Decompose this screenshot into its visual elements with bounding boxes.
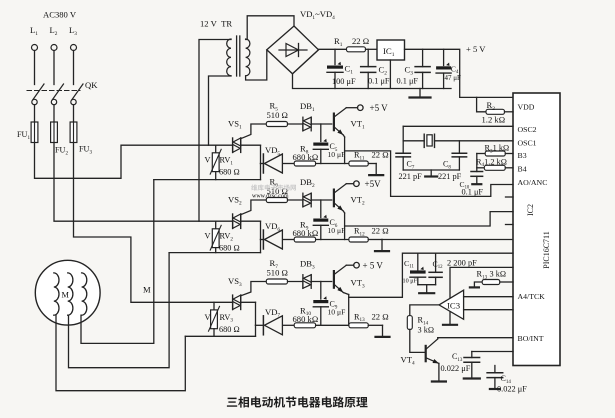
svg-text:510 Ω: 510 Ω [267,110,288,120]
svg-text:BO/INT: BO/INT [518,334,544,343]
pin label B3 [518,151,527,160]
resistor R1 22ohm [334,36,369,52]
switch QK pole 3 [71,84,83,105]
capacitor C5 10uF [313,139,345,164]
label FU2 [55,146,68,157]
terminal L1 [30,25,38,51]
svg-text:0.1 μF: 0.1 μF [397,77,419,86]
resistor R6 510 [266,177,288,203]
resistor R5 510 [266,101,288,127]
resistor R9 680k [293,220,319,243]
ground VT4 emitter [432,363,446,381]
svg-text:M: M [143,285,151,295]
wire R680 to node ch3 [316,324,349,326]
IC1 gnd pin wire [389,60,391,89]
wire motor lead 2 [69,253,170,368]
wire ch1 output to AO/ANC [345,151,513,197]
svg-text:www.dzsc.com: www.dzsc.com [252,194,289,200]
resistor R8 680k [293,144,319,167]
wire diode to R ch1 [283,163,294,165]
watermark line1 [251,184,296,190]
wire R3R4 junction [476,154,478,172]
triac VS3 [228,276,242,310]
svg-text:+ 5 V: + 5 V [363,261,384,271]
capacitor C13 0.022uF [441,352,480,374]
wire VT4 collector to BO/INT [438,337,513,340]
ground power rail [410,89,431,98]
wire motor lead 1 [56,315,185,391]
wire IC3 V+ to IC2 [450,267,513,297]
varistor RV3 [205,302,240,336]
wire emitter down ch2 [343,211,344,240]
wire OSC1 crystal line [403,140,513,142]
wire +5 to R2 [477,97,486,111]
capacitor C6 10uF [313,215,345,240]
wire diode to R ch2 [283,239,294,241]
label FU1 [17,130,30,141]
wire R22 to gnd ch2 [368,239,512,241]
wire diac junction down ch1 [320,124,322,142]
wire ch3 rect bottom [185,335,255,337]
svg-text:AC380 V: AC380 V [43,10,77,20]
wire osc left leg [402,126,404,153]
wire diac junction down ch2 [320,200,322,218]
wire phase L1 to channel 1 [35,143,233,179]
switch QK pole 1 [32,84,44,105]
resistor R12 22 [349,226,389,243]
svg-text:22 Ω: 22 Ω [372,226,389,236]
diac DB2 [300,177,315,207]
resistor R11 22 [349,150,389,167]
switch QK pole 2 [51,84,63,105]
transistor VT4 [401,339,439,366]
fuse FU2 [51,122,58,143]
label PIC16C711 vertical [542,231,551,269]
capacitor C8 221pF [438,153,467,181]
svg-text:680 Ω: 680 Ω [219,244,240,253]
svg-text:VDD: VDD [518,103,535,112]
wire ch2 rect right edge [260,221,262,252]
wire to diac ch2 [288,199,303,201]
pin label BO/INT [518,334,544,343]
node gnd rail [0,0,1,1]
resistor R7 510 [266,258,288,284]
svg-text:PIC16C711: PIC16C711 [542,231,551,269]
wire IC1 out +5V rail [405,49,512,97]
triac VS1 [228,119,242,153]
label IC2 vertical [526,204,535,216]
svg-text:10 μF: 10 μF [328,150,346,159]
capacitor C11 10uF [403,253,426,285]
op-amp IC3 [439,290,464,319]
wire osc right leg [458,141,460,154]
resistor R14 3k [407,316,434,335]
ground IC3 [443,312,457,325]
wire ch2 triac-right to rect [241,220,261,222]
svg-text:1.2 kΩ: 1.2 kΩ [482,115,506,125]
varistor RV1 [205,145,240,179]
pin label VDD [518,103,535,112]
svg-text:QK: QK [85,80,98,90]
wire bridge bottom to gnd rail [293,74,452,89]
wire gate ch3 [241,282,267,296]
svg-text:0.022 μF: 0.022 μF [497,385,527,394]
wire phase L3 to channel 3 [74,143,233,303]
wire R2 to VDD [505,111,514,113]
svg-text:IC3: IC3 [447,300,460,310]
wire bridge out rail [319,48,347,50]
wire switch to fuse FU1 [34,105,36,122]
wire OSC2 [403,125,513,127]
svg-text:12 V TR: 12 V TR [200,19,232,29]
diode VD6 [261,221,283,249]
wire R14 to VT4 base [410,329,425,352]
terminal +5V ch1 [358,103,389,113]
svg-text:0.1 μF: 0.1 μF [368,77,390,86]
svg-text:100 μF: 100 μF [332,77,356,86]
wire emitter down ch1 [343,135,344,164]
label VD1~VD4 [300,9,335,21]
svg-text:V: V [205,232,211,241]
wire L2 to switch [53,51,55,85]
wire ch3 output to filter [349,253,513,297]
svg-text:A4/TCK: A4/TCK [518,292,546,301]
wire R22 to gnd ch3 [368,324,382,326]
wire R22 to gnd ch1 [368,163,376,165]
svg-text:OSC2: OSC2 [518,125,537,134]
wire L3 to switch [73,51,75,85]
wire R680 to node ch1 [316,163,349,165]
wire C13 line to IC2 [472,351,513,353]
svg-text:10 μF: 10 μF [328,308,346,317]
pin stub y224 [506,224,514,226]
wire R1 to IC1 [366,48,378,50]
motor M circle [35,260,100,325]
pin stub y197 [506,196,514,198]
svg-text:10 μF: 10 μF [328,226,346,235]
transistor VT2 [334,184,365,211]
capacitor C1 100uF [327,49,356,88]
svg-text:22 Ω: 22 Ω [372,311,389,321]
svg-text:B3: B3 [518,151,527,160]
varistor RV2 [205,221,240,253]
svg-text:0.022 μF: 0.022 μF [441,364,471,373]
wire diac to base ch3 [311,281,332,283]
terminal L3 [69,25,77,51]
label AC380 V [43,10,77,20]
wire diac junction down ch3 [320,282,322,300]
resistor R2 1.2k [482,100,506,125]
diode VD5 [261,145,283,173]
pin label OSC2 [518,125,537,134]
svg-text:510 Ω: 510 Ω [267,268,288,278]
fuse FU3 [70,122,77,143]
ground C11 C12 [418,285,436,294]
svg-text:680 kΩ: 680 kΩ [293,152,319,162]
svg-text:3 kΩ: 3 kΩ [418,326,435,335]
capacitor C3 0.1uF [397,49,431,88]
label M outside [143,285,151,295]
resistor R10 680k [293,305,319,328]
svg-text:22 Ω: 22 Ω [352,36,369,46]
wire secondary bottom to bridge [246,50,267,80]
svg-text:221 pF: 221 pF [399,172,423,181]
wire to diac ch3 [288,281,303,283]
wire switch to fuse FU2 [53,105,55,122]
capacitor C10 0.1uF [460,172,484,197]
caption [227,397,368,408]
transistor VT3 [334,265,365,292]
label FU3 [79,145,92,156]
ground crystal [425,170,437,177]
ground ch1 [369,164,383,176]
wire to diac ch1 [288,123,303,125]
wire ch3 triac-right to rect [241,301,256,303]
pin label OSC1 [518,138,537,147]
wire diac to base ch2 [311,199,332,201]
wire ch2 output [345,212,513,226]
wire ch1 rect right edge [260,145,262,179]
wire diac to base ch1 [311,123,332,125]
capacitor C9 10uF [313,296,345,325]
transformer TR primary [227,39,231,76]
capacitor C7 221pF [396,153,422,181]
svg-text:3 kΩ: 3 kΩ [490,270,507,279]
wire switch to fuse FU3 [73,105,75,122]
svg-text:AO/ANC: AO/ANC [518,178,548,187]
svg-text:47 μF: 47 μF [445,74,462,82]
diac DB3 [300,259,315,289]
svg-text:680 Ω: 680 Ω [219,168,240,177]
wire ch3 rect right edge [255,302,257,336]
wire ch2 rect bottom [169,252,260,254]
transistor VT1 [334,108,365,135]
wire motor lead 3 [81,180,154,344]
svg-text:10 μF: 10 μF [403,278,418,285]
diac DB1 [300,101,315,131]
triac VS2 [228,195,242,229]
wire ch1 triac-right to rect [241,144,261,146]
svg-text:M: M [62,291,70,300]
ground C10 [472,176,481,184]
motor winding 2 [68,273,73,315]
wire IC3 bottom input [464,309,513,311]
wire emitter down ch3 [343,293,348,326]
wire ch1 rect bottom [154,179,261,181]
wire R680 to node ch2 [316,239,349,241]
svg-text:OSC1: OSC1 [518,138,537,147]
wire osc gnd rail [403,169,459,171]
transformer TR secondary [246,39,250,76]
capacitor C14 0.022uF [487,366,527,394]
ground C14 [490,378,500,389]
wire secondary top to bridge [246,16,294,40]
svg-text:+5 V: +5 V [370,103,389,113]
svg-text:680 Ω: 680 Ω [219,325,240,334]
IC1 regulator [377,40,405,60]
resistor R3 1k [477,144,513,157]
label 12 V TR [200,19,232,29]
diode VD7 [256,307,283,335]
svg-text:2 200 pF: 2 200 pF [447,259,477,268]
resistor R13 22 [349,311,389,328]
transformer TR core [237,36,240,76]
ground ch2 [375,240,389,252]
wire IC3 top input A4/TCK [464,296,513,298]
pin label A4/TCK [518,292,546,301]
wire primary top to L1-line [199,40,231,222]
crystal X1 [424,134,434,147]
svg-text:680 kΩ: 680 kΩ [293,228,319,238]
svg-text:V: V [205,313,211,322]
fuse FU1 [31,122,38,143]
bridge rectifier VD1-VD4 [267,26,319,74]
wire phase L2 to channel 2 [54,143,233,222]
label M inside [62,291,70,300]
ground ch3 [376,325,390,337]
pin label AO/ANC [518,178,548,187]
svg-text:B4: B4 [518,165,527,174]
motor winding 3 [82,273,87,315]
label QK [85,80,98,90]
wire primary bottom tap [209,76,232,145]
IC U2 PIC16C711 box [513,93,560,366]
svg-text:IC2: IC2 [526,204,535,216]
wire gate ch2 [241,200,267,215]
label +5 V rail [466,44,486,54]
motor winding 1 [54,273,59,315]
svg-text:221 pF: 221 pF [438,172,462,181]
resistor R13 3k [470,270,513,288]
capacitor C4 47uF [436,49,461,88]
wire L1 to switch [34,51,36,85]
svg-text:680 kΩ: 680 kΩ [293,314,319,324]
ground C13 [464,362,480,378]
watermark line2 [252,194,289,200]
terminal +5V ch3 [354,261,384,271]
wire gate ch1 [241,124,267,139]
capacitor C2 0.1uF [361,49,390,88]
svg-text:+5V: +5V [365,179,382,189]
pin label B4 [518,165,527,174]
capacitor C12 2200pF [429,253,477,285]
svg-text:0.1 μF: 0.1 μF [462,188,484,197]
wire diode to R ch3 [283,324,294,326]
terminal L2 [50,25,58,51]
wire IC3 output [410,305,439,316]
terminal +5V ch2 [354,179,381,189]
dashed gang line QK [27,90,80,92]
svg-text:+ 5 V: + 5 V [466,44,486,54]
svg-text:V: V [205,156,211,165]
resistor R4 1.2k [476,157,513,170]
